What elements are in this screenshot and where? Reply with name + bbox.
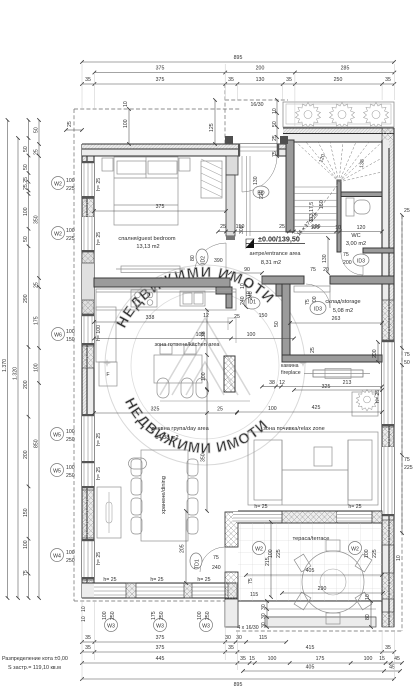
window W2 bedroom lower [82, 217, 94, 314]
svg-text:375: 375 [156, 204, 165, 210]
armchair [352, 392, 378, 416]
svg-text:250: 250 [205, 611, 211, 620]
svg-text:895: 895 [234, 55, 243, 61]
right wall window relax [382, 447, 394, 516]
window W6 kitchen [82, 314, 94, 345]
svg-text:25: 25 [67, 121, 73, 127]
terrace round table [294, 540, 372, 624]
svg-text:W3: W3 [156, 624, 164, 630]
pier between W2 windows [82, 199, 94, 218]
kitchen dim 338 [94, 313, 267, 322]
roof edge bottom-left [74, 600, 236, 602]
roof edge left [73, 109, 75, 601]
svg-text:50: 50 [23, 146, 29, 152]
svg-text:290: 290 [318, 586, 327, 592]
extension lines bottom [82, 600, 394, 680]
svg-text:100: 100 [201, 372, 207, 381]
window marker W2 [52, 227, 65, 240]
canopy column left [225, 136, 233, 144]
fireplace dim 325 [294, 384, 382, 390]
bedroom width dim [94, 204, 320, 234]
svg-text:30: 30 [236, 635, 242, 641]
door marker ID1 [244, 297, 260, 309]
svg-text:200: 200 [343, 260, 352, 266]
canopy dashed left [224, 84, 226, 144]
svg-text:75: 75 [343, 252, 349, 258]
roof offset dim 25 top-left [66, 121, 82, 130]
svg-text:120: 120 [357, 225, 366, 231]
door marker ID3 wc [353, 254, 369, 266]
svg-text:100: 100 [196, 332, 205, 338]
svg-text:зона почивка/relax zone: зона почивка/relax zone [263, 426, 324, 432]
stair treads left flight [294, 187, 337, 233]
svg-text:WC: WC [351, 233, 360, 239]
svg-text:100: 100 [364, 549, 370, 558]
svg-text:90: 90 [244, 267, 250, 273]
bottom-left parapet wall h=25 with W3 windows [82, 583, 237, 598]
svg-text:W4: W4 [53, 554, 61, 560]
svg-text:375: 375 [156, 66, 165, 72]
svg-text:h= 25: h= 25 [96, 178, 102, 191]
sideboard cabinet dining [97, 487, 121, 538]
terrace steps dims 30 [261, 601, 267, 628]
svg-text:35: 35 [85, 645, 91, 651]
svg-text:100: 100 [23, 207, 29, 216]
svg-text:100: 100 [247, 332, 256, 338]
terrace dim 80 rotated [365, 594, 371, 627]
svg-text:240: 240 [212, 565, 221, 571]
dim 240 rotated [240, 283, 246, 307]
svg-text:200: 200 [372, 349, 378, 358]
level mark [246, 235, 305, 249]
svg-text:250: 250 [110, 611, 116, 620]
svg-text:тераса/terrace: тераса/terrace [293, 536, 330, 542]
window marker W5 [51, 464, 64, 477]
pier kitchen [82, 346, 94, 368]
svg-text:100: 100 [197, 611, 203, 620]
dining table [128, 450, 198, 541]
svg-text:13,13 m2: 13,13 m2 [136, 244, 159, 250]
wardrobe [201, 159, 222, 198]
svg-text:895: 895 [234, 682, 243, 688]
svg-text:h= 25: h= 25 [197, 577, 210, 583]
svg-text:12: 12 [279, 380, 285, 386]
svg-text:25,25: 25,25 [23, 177, 29, 190]
window markers W3 bottom [105, 619, 118, 632]
svg-text:Разпределение кота ±0,00: Разпределение кота ±0,00 [2, 656, 68, 662]
storage left wall [282, 284, 290, 355]
svg-text:ID2: ID2 [201, 256, 207, 264]
svg-text:35: 35 [228, 77, 234, 83]
stair fan rays [296, 142, 382, 182]
svg-text:ID3: ID3 [357, 259, 365, 265]
entrance door ED opening [238, 144, 279, 192]
storage door ID3 swing [329, 284, 331, 308]
cooktop [131, 290, 157, 307]
bottom dim row A [82, 635, 286, 642]
top dim row2 [94, 66, 394, 73]
svg-text:225: 225 [276, 549, 282, 558]
svg-text:50: 50 [34, 127, 40, 133]
svg-text:130: 130 [322, 254, 328, 263]
kitchen cabinet strip left [96, 307, 116, 362]
fireplace [304, 369, 370, 379]
svg-text:425: 425 [312, 405, 321, 411]
svg-text:100: 100 [123, 119, 129, 128]
dim 100 day area [201, 310, 207, 390]
TD1 door swing [224, 547, 226, 572]
roof edge bottom-right [236, 630, 402, 632]
bottom dim row C [82, 656, 402, 663]
tree 1 [296, 103, 321, 128]
watermark [103, 265, 307, 465]
svg-text:138: 138 [359, 159, 366, 168]
sofa relax zone [248, 432, 378, 505]
svg-text:75: 75 [272, 151, 278, 157]
svg-text:75: 75 [404, 352, 410, 358]
interior: entrance bottom wall [262, 276, 304, 284]
terrace dim 405 [246, 568, 382, 575]
svg-text:зона готвене/kitchen area: зона готвене/kitchen area [154, 342, 220, 348]
svg-text:W6: W6 [54, 333, 62, 339]
ED door leaf + swing [241, 156, 243, 192]
svg-text:220: 220 [259, 190, 265, 199]
terrace tiles [238, 523, 382, 601]
svg-text:30: 30 [225, 635, 231, 641]
svg-text:285: 285 [341, 66, 350, 72]
svg-text:4 x 16/30: 4 x 16/30 [237, 625, 258, 631]
T stem below entrance wall [276, 284, 284, 296]
svg-text:100: 100 [102, 611, 108, 620]
svg-text:ID3: ID3 [314, 307, 322, 313]
window W2 bedroom upper [82, 161, 94, 198]
terrace dim 215 rotated [248, 522, 271, 597]
bed [114, 157, 178, 225]
canopy dashed top [225, 99, 288, 101]
door marker ID3 storage [310, 302, 326, 315]
ID2 door swing [225, 243, 227, 275]
svg-text:35: 35 [385, 645, 391, 651]
svg-text:склад/storage: склад/storage [325, 299, 360, 305]
window W5 upper [82, 414, 94, 462]
svg-text:1.370: 1.370 [2, 359, 8, 372]
svg-text:120: 120 [311, 225, 320, 231]
svg-text:35: 35 [240, 656, 246, 662]
newel / stair-WC wall [337, 180, 341, 252]
left dim col 4 [34, 120, 40, 598]
svg-text:405: 405 [306, 568, 315, 574]
svg-text:75: 75 [305, 299, 311, 305]
svg-text:10: 10 [272, 108, 278, 114]
svg-text:100: 100 [23, 540, 29, 549]
canopy dim 100 [123, 101, 129, 144]
living mid dim line [94, 332, 294, 339]
svg-text:115: 115 [250, 592, 258, 598]
svg-text:75: 75 [213, 555, 219, 561]
window marker W2 [52, 177, 65, 190]
bottom dim overall 895 [82, 679, 394, 688]
storage dim 263 [290, 316, 382, 323]
svg-text:50: 50 [272, 121, 278, 127]
svg-text:175: 175 [151, 611, 157, 620]
svg-text:205: 205 [180, 544, 186, 553]
svg-text:W3: W3 [202, 624, 210, 630]
entrance dim 130 rotated [322, 238, 328, 273]
WC bottom wall + door [341, 248, 394, 275]
svg-text:антре/entrance area: антре/entrance area [249, 251, 301, 257]
svg-text:35: 35 [286, 77, 292, 83]
left dim col 2 [13, 138, 19, 598]
day table [154, 345, 208, 398]
svg-text:200: 200 [23, 380, 29, 389]
extension lines top [82, 64, 394, 126]
window marker W5 [51, 428, 64, 441]
svg-text:W2: W2 [255, 547, 263, 553]
svg-text:35: 35 [85, 635, 91, 641]
svg-text:25: 25 [34, 282, 40, 288]
svg-text:W2: W2 [351, 547, 359, 553]
stair top exterior wall [283, 128, 394, 142]
svg-text:h= 25: h= 25 [96, 552, 102, 565]
roof edge right [401, 215, 403, 631]
svg-text:75: 75 [310, 267, 316, 273]
tree 3 [364, 103, 389, 128]
bottom dim row D [243, 665, 400, 672]
svg-text:W5: W5 [53, 433, 61, 439]
svg-text:W3: W3 [107, 624, 115, 630]
terrace window markers W2 [253, 542, 266, 555]
bedside table right [179, 158, 190, 171]
svg-text:5,08 m2: 5,08 m2 [333, 308, 353, 314]
svg-text:75: 75 [248, 578, 254, 584]
svg-text:h= 25: h= 25 [96, 433, 102, 446]
svg-text:150: 150 [23, 508, 29, 517]
walls [82, 128, 394, 627]
svg-text:30: 30 [261, 613, 267, 619]
door marker ED [253, 186, 269, 198]
svg-text:250: 250 [334, 77, 343, 83]
svg-text:8,31 m2: 8,31 m2 [261, 260, 281, 266]
door dim 90 [230, 267, 262, 273]
svg-text:25: 25 [217, 407, 223, 413]
svg-text:100: 100 [364, 656, 373, 662]
svg-text:338: 338 [146, 315, 155, 321]
furniture [96, 157, 382, 624]
svg-text:200: 200 [256, 66, 265, 72]
svg-text:h= 25: h= 25 [254, 504, 267, 510]
corridor closet lines [246, 156, 248, 236]
bedside table left [102, 158, 113, 171]
svg-text:100: 100 [66, 550, 75, 556]
svg-text:250: 250 [66, 558, 75, 564]
kitchen return wall [216, 287, 232, 294]
svg-text:250: 250 [159, 611, 165, 620]
svg-text:100: 100 [268, 406, 277, 412]
indoor plant relax zone [356, 390, 377, 411]
svg-text:215: 215 [265, 557, 271, 566]
svg-text:дневна група/day area: дневна група/day area [151, 426, 209, 432]
svg-text:10: 10 [396, 555, 402, 561]
storage shelf [294, 286, 330, 292]
svg-text:100: 100 [66, 329, 75, 335]
svg-text:150: 150 [319, 200, 325, 209]
svg-text:375: 375 [156, 77, 165, 83]
svg-text:TD1: TD1 [195, 559, 201, 569]
svg-text:150: 150 [236, 224, 245, 230]
right wall terrace piers [382, 520, 394, 545]
svg-text:130: 130 [253, 176, 259, 185]
terrace top wall (living-terrace) [233, 511, 382, 523]
svg-text:h= 25: h= 25 [96, 467, 102, 480]
WC toilet [346, 198, 370, 216]
svg-text:25: 25 [34, 149, 40, 155]
door marker ID2 [196, 249, 208, 265]
canopy column right [280, 136, 288, 144]
canopy dim col right [272, 100, 278, 157]
svg-text:35: 35 [385, 77, 391, 83]
svg-text:25: 25 [404, 208, 410, 214]
svg-text:175: 175 [34, 316, 40, 325]
svg-text:213: 213 [343, 380, 352, 386]
svg-text:15: 15 [249, 656, 255, 662]
svg-text:325: 325 [151, 407, 160, 413]
svg-text:350: 350 [34, 215, 40, 224]
svg-text:25: 25 [220, 224, 226, 230]
svg-text:445: 445 [156, 656, 165, 662]
svg-text:F: F [106, 372, 109, 378]
svg-text:10: 10 [240, 283, 246, 289]
svg-text:325: 325 [322, 384, 331, 390]
svg-text:100: 100 [34, 363, 40, 372]
svg-text:130: 130 [256, 77, 265, 83]
terrace dim 290 [282, 586, 383, 593]
watermark side stars [103, 359, 111, 367]
storage bottom wall [282, 355, 382, 362]
svg-text:100: 100 [268, 656, 277, 662]
left dim col 3 [23, 120, 29, 598]
svg-text:100: 100 [66, 429, 75, 435]
svg-text:30: 30 [261, 622, 267, 628]
svg-text:h= 25: h= 25 [375, 390, 381, 403]
fridge F [99, 362, 117, 386]
svg-text:100: 100 [66, 228, 75, 234]
left exterior wall [82, 144, 94, 598]
living dim 325 [94, 407, 237, 414]
svg-text:25: 25 [279, 224, 285, 230]
interior: stair left wall [286, 140, 294, 232]
window W5 lower [82, 461, 94, 488]
solid pier below W2b [82, 252, 94, 314]
svg-text:415: 415 [306, 645, 315, 651]
svg-text:±0.00/139,50: ±0.00/139,50 [258, 235, 300, 244]
interior: bedroom right wall [194, 156, 238, 275]
svg-text:80: 80 [190, 255, 196, 261]
corner block stair top-right [382, 128, 394, 148]
svg-text:45: 45 [394, 656, 400, 662]
svg-text:10: 10 [365, 594, 371, 600]
svg-text:50: 50 [404, 360, 410, 366]
svg-text:125: 125 [209, 123, 215, 132]
svg-text:h= 25: h= 25 [103, 577, 116, 583]
top dim row3 [82, 77, 394, 84]
dim row 38 12 213 [262, 380, 382, 387]
svg-text:W2: W2 [54, 232, 62, 238]
dim 350 rotated dining [201, 389, 208, 511]
svg-text:10: 10 [123, 101, 129, 107]
svg-text:W2: W2 [54, 182, 62, 188]
svg-text:350: 350 [201, 453, 207, 462]
window marker W4 [51, 549, 64, 562]
svg-text:200: 200 [23, 450, 29, 459]
door marker TD1 [190, 553, 202, 569]
svg-text:115: 115 [259, 635, 267, 641]
bottom dim row B [82, 645, 394, 652]
svg-text:75: 75 [23, 570, 29, 576]
svg-text:173,17,5: 173,17,5 [309, 202, 315, 222]
svg-text:54,38 m2: 54,38 m2 [155, 435, 178, 441]
window marker W6 [52, 328, 65, 341]
svg-text:250: 250 [66, 473, 75, 479]
column day area [224, 356, 235, 392]
svg-text:3,00 m2: 3,00 m2 [346, 241, 366, 247]
svg-text:850: 850 [34, 439, 40, 448]
svg-text:375: 375 [156, 645, 165, 651]
svg-text:150: 150 [66, 337, 75, 343]
right dim col [402, 208, 413, 533]
svg-text:W5: W5 [53, 469, 61, 475]
right wall xh pier [382, 300, 394, 340]
right wall dim 200 rotated [372, 342, 378, 362]
svg-text:50: 50 [23, 164, 29, 170]
svg-text:75: 75 [404, 457, 410, 463]
svg-text:375: 375 [156, 635, 165, 641]
svg-text:10: 10 [335, 225, 341, 231]
svg-text:100: 100 [66, 178, 75, 184]
svg-text:25: 25 [234, 314, 240, 320]
svg-text:50: 50 [23, 236, 29, 242]
svg-text:S застр.= 119,10 кв.м: S застр.= 119,10 кв.м [8, 665, 61, 671]
svg-text:камина: камина [281, 363, 299, 369]
roof dashed outline [74, 84, 402, 631]
bench at bed foot [116, 266, 185, 273]
svg-text:50: 50 [274, 321, 280, 327]
svg-text:390: 390 [214, 258, 223, 264]
left dim col 1 [2, 120, 8, 598]
svg-text:спалня/guest bedroom: спалня/guest bedroom [118, 236, 176, 242]
kitchen counter [96, 289, 236, 310]
terrace bottom steps [238, 601, 382, 627]
dim 205 rotated dining [180, 511, 187, 583]
svg-text:25: 25 [310, 347, 316, 353]
svg-text:240: 240 [248, 291, 254, 300]
stairs [294, 142, 382, 238]
stair dim row [218, 225, 382, 232]
svg-text:38: 38 [269, 380, 275, 386]
stair walk line [296, 184, 338, 238]
right wall window storage/fireplace [382, 340, 394, 426]
svg-text:h= 25: h= 25 [96, 232, 102, 245]
window W4 [82, 539, 94, 579]
terrace left parapet [200, 512, 238, 627]
watermark house logo [160, 318, 250, 401]
right exterior wall [382, 128, 394, 627]
svg-text:150: 150 [259, 313, 268, 319]
svg-text:225: 225 [66, 186, 75, 192]
svg-text:250: 250 [66, 437, 75, 443]
svg-text:290: 290 [23, 294, 29, 303]
top exterior wall bedroom [82, 144, 294, 156]
svg-text:h= 25: h= 25 [348, 504, 361, 510]
